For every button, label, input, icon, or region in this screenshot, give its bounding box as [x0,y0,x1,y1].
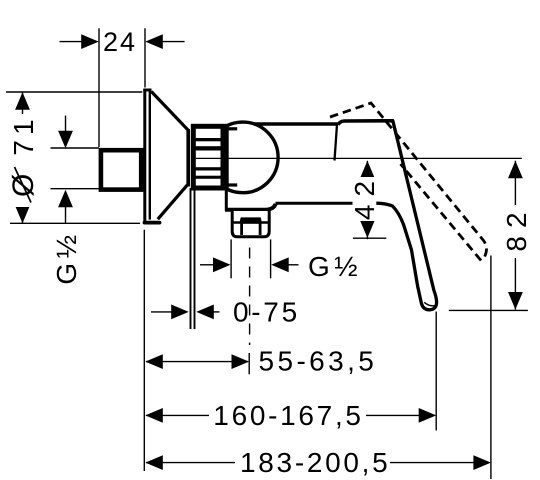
body top line [254,122,338,125]
svg-text:Ø: Ø [7,171,40,197]
dashed handle (raised position) [330,103,487,261]
left G1/2 dim lines [65,116,67,133]
160-167,5 dim line [146,414,432,416]
escutcheon cone [151,92,188,220]
threaded mounting nut (ribs) [191,124,229,191]
top ext lines for 24 [98,28,100,147]
svg-text:183-200,5: 183-200,5 [240,447,390,478]
outlet ext lines [230,239,232,278]
svg-text:160-167,5: 160-167,5 [213,400,363,431]
handle tip ext line [435,312,437,431]
outlet centerline dashes [249,248,251,346]
shower outlet G1/2 [232,210,269,237]
183-200,5 dim line [146,462,487,464]
svg-text:24: 24 [103,27,137,57]
ext line y=223.3 (bottom of plate) [10,222,140,224]
nipple edge ext lines [51,147,100,149]
escutcheon wall plate [143,89,151,222]
svg-text:0-75: 0-75 [233,297,300,328]
dia 71 dim line [22,92,24,223]
dashed tip ext line [490,256,492,480]
handle lever front edge [377,121,437,310]
body / handle joint [335,125,338,161]
double lines (0-75) [190,188,192,329]
svg-text:G½: G½ [51,230,82,284]
handle tip level line [449,309,528,311]
left main ext line [143,230,145,471]
svg-text:55-63,5: 55-63,5 [259,346,378,377]
G1/2 inlet nipple [101,150,141,189]
42 ref line [353,237,386,239]
svg-text:71: 71 [8,114,39,155]
svg-text:82: 82 [501,204,532,251]
82 dim line [514,161,516,310]
55-63,5 dim line [146,361,248,363]
valve body circle [208,122,279,193]
0-75 dim tails [151,311,172,313]
svg-text:G½: G½ [308,251,362,282]
white backgrounds for rotated labels on dim lines [8,114,37,207]
right G1/2 dim tails [200,264,214,266]
center axis line [196,157,522,159]
42 dim line [366,161,368,239]
body bottom outline [225,189,353,212]
escutcheon bottom foot [145,221,160,225]
handle tip inner line [424,302,435,306]
handle top [338,121,393,125]
collar edges between nut and valve body [228,127,237,130]
ext line y=92 (top of plate) [6,91,142,93]
svg-text:42: 42 [349,173,380,220]
dim 24 tails [60,41,85,43]
